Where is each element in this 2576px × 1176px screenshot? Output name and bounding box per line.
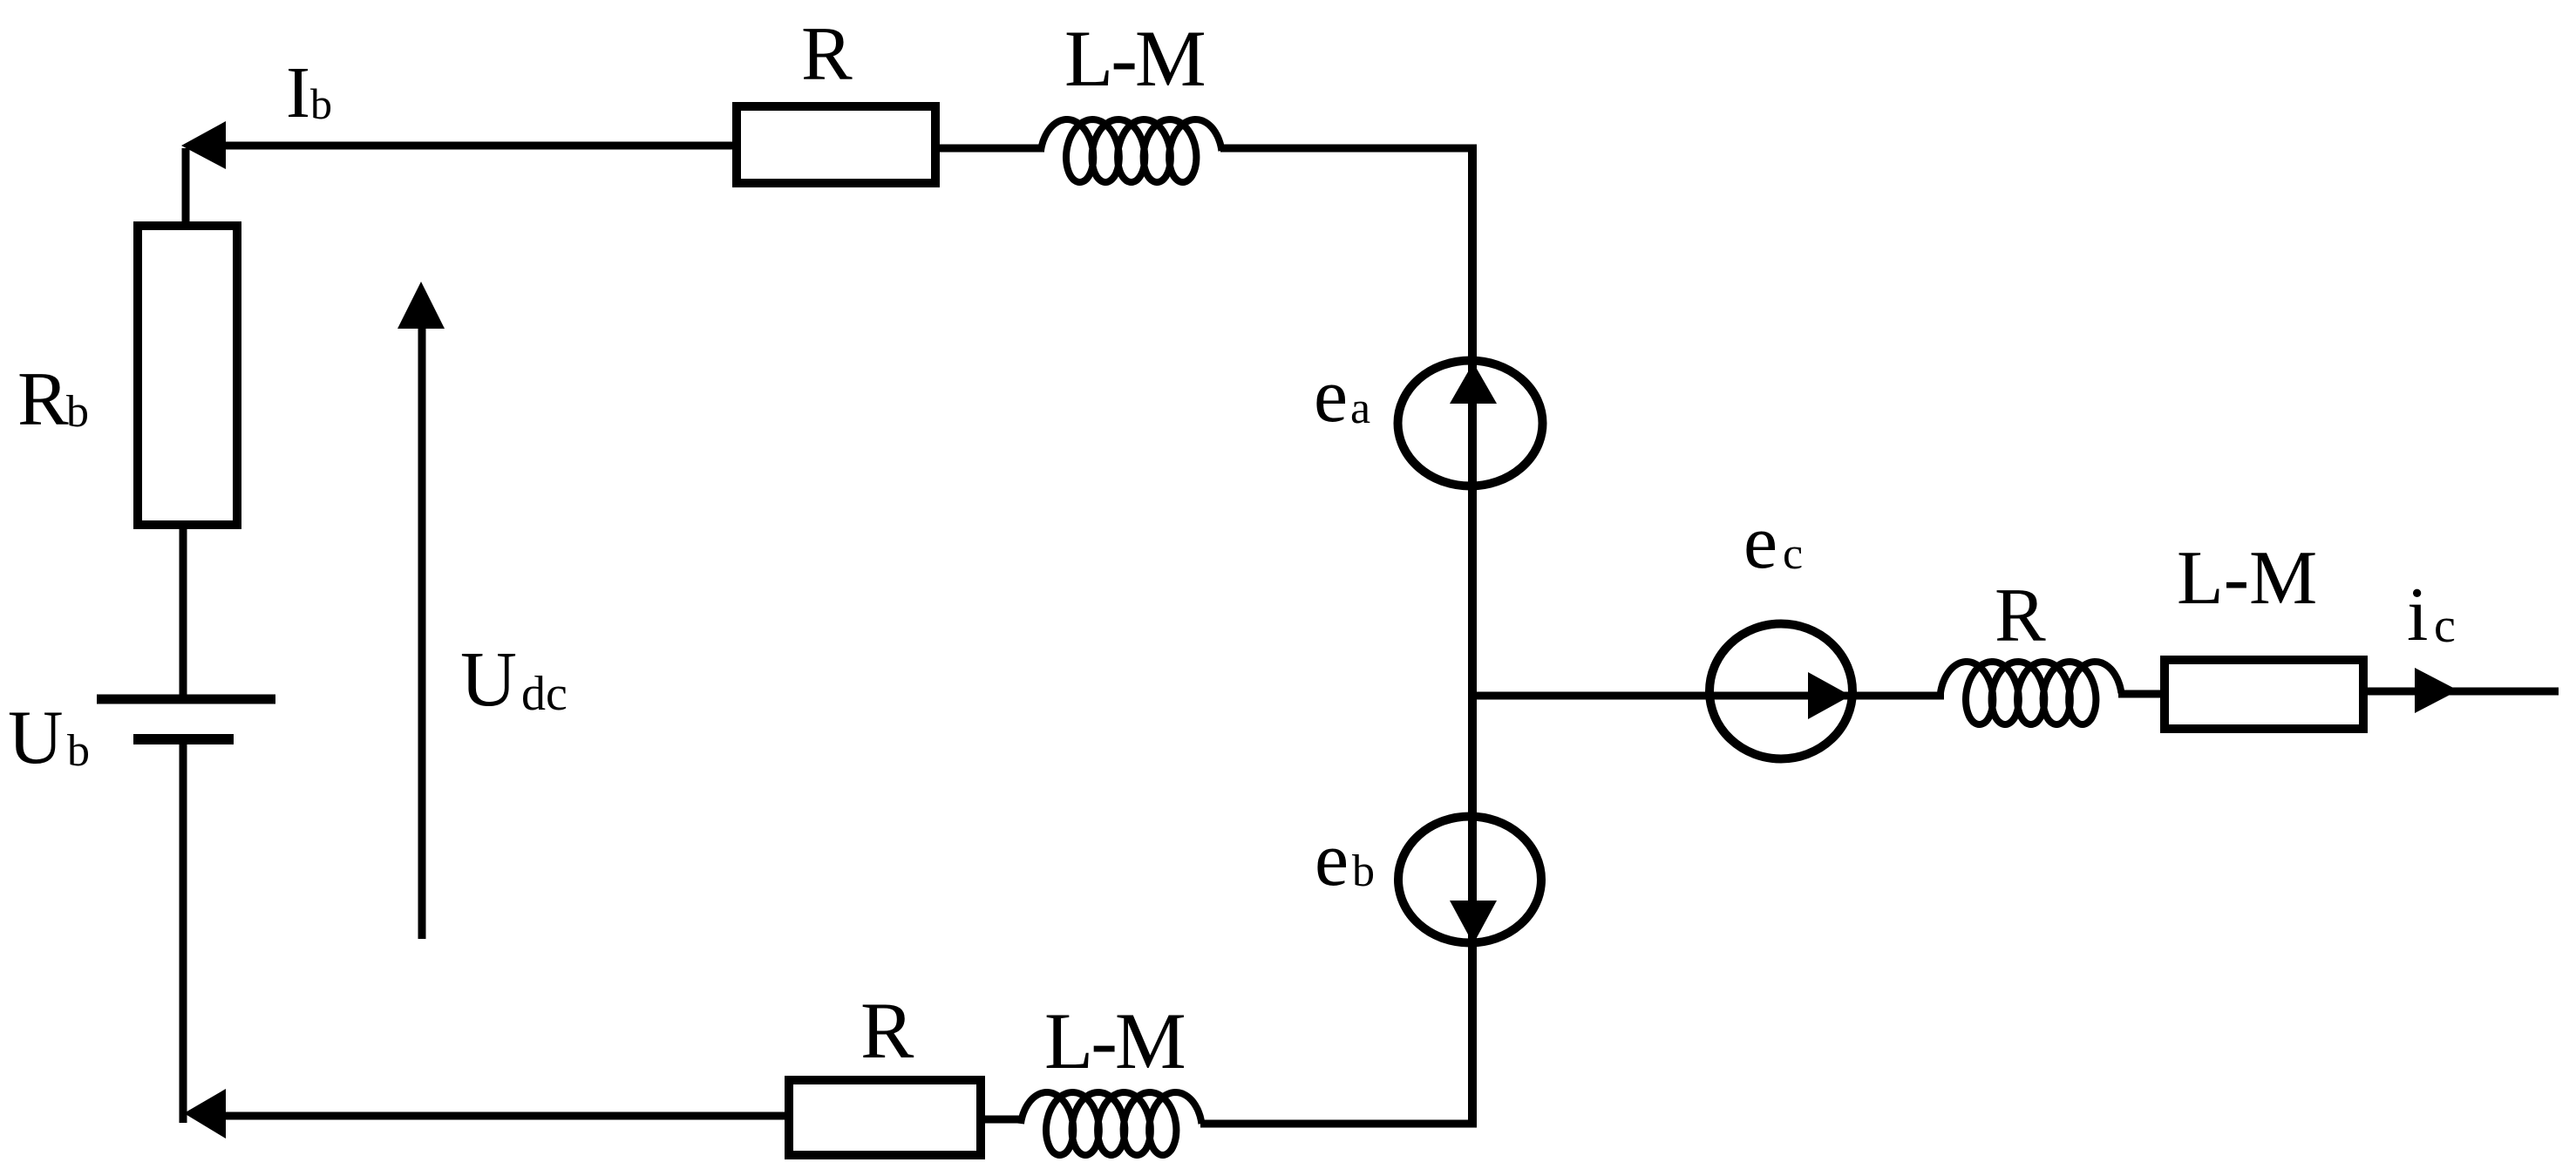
svg-text:U: U xyxy=(8,696,64,780)
wire L-M box to edge with ic arrow xyxy=(2363,688,2559,696)
svg-text:e: e xyxy=(1743,500,1777,585)
arrow Udc (voltage reference) xyxy=(418,324,426,939)
svg-text:R: R xyxy=(801,12,853,97)
arrowhead ec (right) xyxy=(1808,672,1851,719)
source ec (circle) xyxy=(1709,624,1852,759)
arrowhead Ib (current into node, pointing left) xyxy=(181,121,226,169)
svg-text:b: b xyxy=(66,387,89,437)
svg-text:a: a xyxy=(1350,384,1370,433)
wire from Ib arrow down to Rb xyxy=(182,148,190,226)
wire Rb to battery xyxy=(180,525,187,695)
resistor R (bottom) xyxy=(789,1080,981,1155)
resistor R (top) xyxy=(737,106,935,183)
wire bottom box to coil xyxy=(981,1116,1024,1124)
svg-text:L-M: L-M xyxy=(1064,14,1205,103)
wire battery to bottom corner xyxy=(180,744,187,1123)
bottom wire with arrowhead xyxy=(184,1089,226,1139)
source eb (circle) xyxy=(1398,817,1541,943)
source ea (circle) xyxy=(1398,361,1543,486)
svg-text:c: c xyxy=(2434,599,2456,653)
svg-text:e: e xyxy=(1314,354,1348,438)
wire middle branch (through ec) xyxy=(1473,692,1944,700)
svg-text:c: c xyxy=(1783,529,1803,579)
svg-text:R: R xyxy=(860,986,914,1075)
resistor Rb xyxy=(138,226,237,525)
svg-text:e: e xyxy=(1315,818,1349,902)
inductor R coil (right branch) xyxy=(1940,662,2121,724)
svg-text:b: b xyxy=(67,726,90,776)
svg-text:U: U xyxy=(460,636,517,723)
wire coil to L-M box (right) xyxy=(2118,690,2165,698)
vertical phase line xyxy=(1468,145,1477,1126)
inductor L-M (bottom coil) xyxy=(1021,1092,1201,1155)
svg-text:I: I xyxy=(286,52,310,133)
inductor L-M (top coil) xyxy=(1041,119,1221,182)
wire from top coil to vertical line xyxy=(1220,145,1477,153)
svg-text:dc: dc xyxy=(521,667,568,721)
svg-text:i: i xyxy=(2407,573,2428,657)
svg-text:R: R xyxy=(17,357,69,442)
arrowhead ea (up) xyxy=(1450,363,1497,404)
battery Ub plate + (long) xyxy=(97,695,275,704)
svg-text:L-M: L-M xyxy=(2177,536,2317,621)
arrowhead eb (down) xyxy=(1450,901,1497,944)
wire top branch left segment xyxy=(218,142,739,150)
svg-text:L-M: L-M xyxy=(1044,996,1185,1085)
wire bottom coil to vertical line xyxy=(1200,1120,1477,1128)
arrowhead ic (right) xyxy=(2415,668,2458,713)
battery Ub plate - (short) xyxy=(133,734,234,744)
svg-text:b: b xyxy=(1352,846,1375,896)
wire between R and L-M (top) xyxy=(935,145,1044,153)
svg-text:b: b xyxy=(310,79,332,128)
resistor box L-M (right) xyxy=(2165,660,2363,729)
svg-text:R: R xyxy=(1995,574,2046,658)
